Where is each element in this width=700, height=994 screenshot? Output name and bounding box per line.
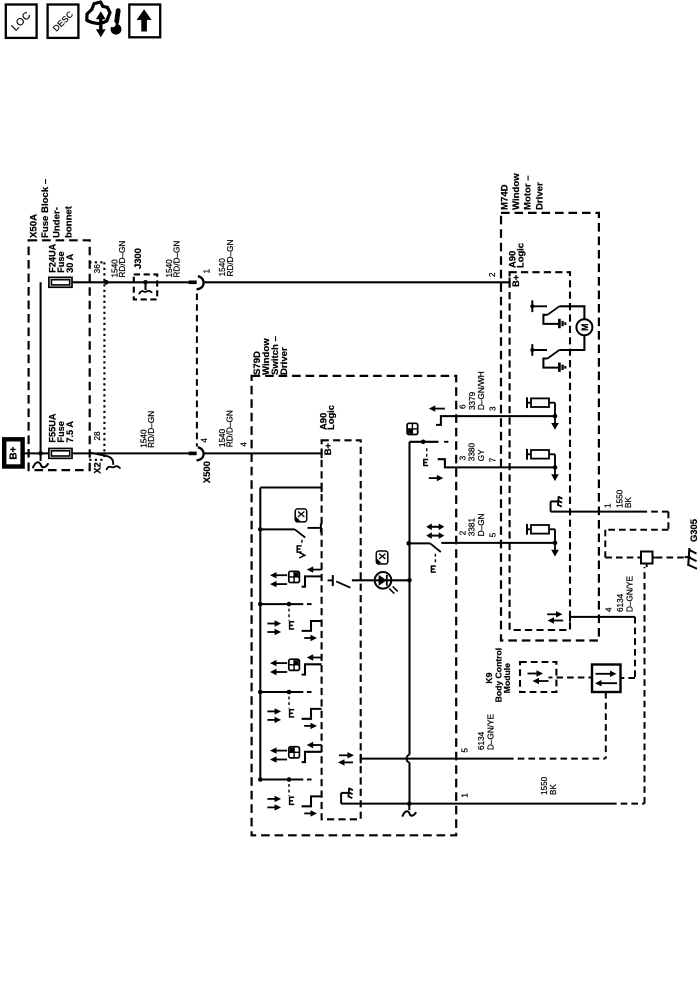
switch bus vertical (259, 488, 261, 780)
wire 1550 dashed route to G305 junction (605, 512, 668, 558)
label X50A Fuse Block - Under-bonnet (28, 178, 74, 238)
svg-text:bonnet: bonnet (63, 205, 74, 238)
connector X2 dotted pass-through (89, 262, 104, 460)
actuator symbol (289, 709, 291, 718)
pin 6 switch contact (436, 416, 456, 425)
icon LOC button (6, 5, 37, 38)
svg-text:BK: BK (549, 784, 558, 795)
B+ rail vertical in S79D (407, 442, 410, 804)
pin tick feed (321, 483, 323, 492)
lockout switch contact (258, 523, 321, 543)
svg-text:1: 1 (203, 269, 212, 274)
fuse F55UA 7.5 A (48, 413, 75, 458)
pin 3 switch contact (438, 459, 457, 467)
pull-up resistor (527, 449, 557, 470)
X2 pin 28 terminal clip (90, 453, 113, 465)
switch common node (410, 440, 449, 445)
svg-text:30 A: 30 A (65, 253, 75, 272)
pin 6 switch direction arrow (433, 408, 445, 410)
svg-text:Logic: Logic (325, 405, 336, 430)
pin 3 actuator linkage (426, 448, 428, 458)
svg-text:RD/D–GN: RD/D–GN (173, 241, 182, 278)
svg-text:LOC: LOC (10, 10, 34, 34)
pull-up resistor (527, 524, 557, 545)
svg-text:7: 7 (488, 457, 497, 462)
actuator arrows (267, 708, 281, 723)
direction arrow (304, 725, 312, 727)
junction LED to rail (407, 578, 412, 583)
serial data interface box (592, 665, 621, 693)
connector X500 pin 1 terminals (189, 276, 204, 289)
wire 3381 S79D pin2 to M74D pin5 (456, 542, 555, 544)
window switch unit (270, 572, 287, 587)
svg-text:Motor –: Motor – (523, 175, 534, 210)
pin 3 actuator symbol (423, 459, 425, 466)
bus continuation squiggle (40, 453, 42, 461)
svg-text:6134: 6134 (477, 731, 486, 750)
svg-text:3381: 3381 (468, 518, 477, 537)
svg-text:7.5 A: 7.5 A (65, 421, 75, 443)
svg-text:D–GN: D–GN (477, 513, 486, 536)
motor M (576, 319, 592, 335)
switch S79D dashed box (252, 376, 457, 835)
wire X500 pin 4 to S79D pin 4 (203, 452, 322, 454)
wire K9 to interface box (556, 677, 592, 679)
switch contact (302, 796, 322, 806)
splice J300 dashed box (134, 274, 157, 299)
S79D logic A90 dashed box (322, 440, 361, 819)
pin tick 6134 out of M74D logic (569, 612, 571, 622)
wire switch feed from logic (260, 486, 321, 488)
switch actuator linkage (288, 697, 290, 709)
svg-text:5: 5 (460, 748, 469, 753)
svg-text:Fuse Block –: Fuse Block – (40, 178, 51, 238)
svg-text:4: 4 (240, 442, 249, 447)
svg-text:4: 4 (200, 438, 209, 443)
svg-text:3380: 3380 (468, 443, 477, 462)
splice J300 tap (143, 280, 148, 285)
wire 1550 from M74D logic (551, 511, 641, 513)
svg-text:Window: Window (511, 173, 522, 210)
wire B+ to fuse F55UA (23, 452, 49, 454)
svg-text:B+: B+ (322, 442, 333, 455)
fuse block X50A dashed box (29, 240, 90, 470)
pin 2 actuator linkage (434, 554, 436, 565)
window icon (289, 659, 300, 670)
svg-text:J300: J300 (132, 248, 143, 269)
svg-text:X2: X2 (92, 462, 103, 473)
wire fuse F55UA through X2 pin 28 to X500 pin 4 (72, 452, 189, 454)
icon full-view up arrow button (129, 5, 160, 38)
relay output to motor bottom (559, 335, 584, 350)
pull-up resistor (527, 397, 557, 418)
icon DESC button (48, 5, 79, 38)
ground G305 symbol (685, 548, 697, 569)
logic input arrow (554, 543, 556, 552)
svg-text:D–GN/YE: D–GN/YE (626, 576, 635, 612)
svg-text:Driver: Driver (279, 347, 290, 375)
window switch unit (270, 660, 287, 675)
svg-text:Driver: Driver (534, 182, 545, 210)
svg-text:D–GN/WH: D–GN/WH (477, 371, 486, 410)
lockout switch icon (295, 509, 307, 522)
switch contact (302, 621, 322, 631)
svg-text:6134: 6134 (616, 593, 625, 612)
pin tick B+ into S79D logic (321, 449, 323, 459)
svg-text:GY: GY (477, 449, 486, 461)
svg-text:6: 6 (458, 404, 467, 409)
svg-text:28: 28 (93, 431, 102, 441)
wire interface box to 6134 run (605, 692, 607, 759)
pin 3 direction arrow (429, 477, 439, 479)
battery feed B+ terminal (4, 439, 22, 466)
ground wire squiggle (408, 804, 410, 811)
indicator LED (375, 572, 398, 594)
wire 1550 dashed to ground route (610, 803, 645, 805)
M74D logic ground (550, 501, 552, 511)
actuator symbol (289, 621, 291, 630)
direction arrow (304, 637, 312, 639)
svg-text:Logic: Logic (514, 243, 525, 268)
svg-text:B+: B+ (510, 274, 521, 287)
X2 pin 36 terminal junction (104, 280, 109, 285)
switch contact (302, 566, 322, 586)
svg-text:2: 2 (488, 272, 497, 277)
wire fuse F24UA to X500 pin 1 (72, 281, 189, 283)
junction rail to ground wire (407, 801, 412, 806)
relay contact (530, 344, 559, 368)
svg-text:RD/D–GN: RD/D–GN (226, 239, 235, 276)
switch contact (302, 709, 322, 719)
svg-text:2: 2 (458, 530, 467, 535)
pin 2 switch contact (407, 541, 457, 552)
pin 2 double arrows (426, 524, 444, 539)
junction pin2 rail (407, 541, 412, 546)
svg-text:X50A: X50A (28, 214, 39, 238)
wire S79D ground to pin 1 (341, 803, 610, 805)
module K9 dashed box (520, 662, 556, 692)
X500 connector extent dashed (196, 294, 198, 447)
wire 6134 dashed route to BCM (621, 617, 636, 678)
M74D logic double arrow to pin 4 (547, 611, 563, 624)
svg-text:Under-: Under- (52, 207, 63, 238)
pin tick 6134 out of logic (360, 754, 362, 764)
svg-text:3: 3 (488, 406, 497, 411)
motor M74D dashed box (501, 213, 599, 641)
svg-text:1: 1 (460, 793, 469, 798)
switch contact (302, 742, 322, 762)
wire to G305 (656, 557, 685, 559)
wire S79D pin 5 6134 (361, 758, 507, 760)
svg-text:3379: 3379 (468, 391, 477, 410)
svg-text:D–GN/YE: D–GN/YE (486, 714, 495, 750)
svg-text:G305: G305 (688, 519, 699, 542)
switch contact (302, 654, 322, 674)
actuator symbol (289, 797, 291, 806)
svg-text:5: 5 (488, 532, 497, 537)
relay output to motor top (559, 306, 584, 319)
lockout actuator symbol (297, 545, 305, 558)
svg-text:1: 1 (603, 503, 612, 508)
svg-text:36: 36 (93, 264, 102, 274)
svg-text:B+: B+ (9, 446, 20, 459)
svg-text:RD/D–GN: RD/D–GN (147, 411, 156, 448)
svg-text:BK: BK (624, 497, 633, 508)
actuator arrows (267, 620, 281, 635)
switch common bus branch (258, 690, 312, 695)
svg-text:3: 3 (458, 455, 467, 460)
S79D logic ground (340, 793, 342, 804)
fuse block internal bus vertical (40, 282, 42, 453)
svg-text:M74D: M74D (499, 184, 510, 210)
svg-text:Module: Module (502, 663, 512, 693)
wire 3380 S79D pin3 to M74D pin7 (456, 466, 555, 468)
icon vehicle with double arrow and wrench (87, 2, 122, 37)
window icon at pin 6 switch (407, 423, 418, 434)
svg-text:RD/D–GN: RD/D–GN (226, 410, 235, 447)
logic input arrow (554, 467, 556, 476)
wire X500 pin 1 to M74D pin 2 (203, 281, 510, 283)
window icon (289, 571, 300, 582)
actuator arrows (267, 796, 281, 811)
connector X500 pin 4 terminals (189, 447, 204, 460)
window switch unit (270, 747, 287, 762)
switch common bus branch (258, 602, 312, 607)
window icon (289, 747, 300, 758)
svg-text:X500: X500 (201, 461, 212, 483)
svg-text:RD/D–GN: RD/D–GN (118, 241, 127, 278)
ground junction box (641, 552, 656, 568)
svg-text:DESC: DESC (51, 9, 76, 34)
S79D logic double arrow to pin 5 (338, 752, 354, 766)
pin tick B+ into M74D logic (509, 278, 511, 288)
switch actuator linkage (288, 609, 290, 621)
svg-text:4: 4 (604, 607, 613, 612)
LED lockout icon (376, 551, 388, 564)
switch actuator linkage (288, 784, 290, 796)
M74D logic A90 dashed box (510, 272, 570, 630)
relay ground bars (559, 319, 565, 328)
wire LED feed (352, 579, 410, 581)
fuse F24UA 30 A (48, 243, 75, 287)
K9 double arrow (528, 670, 553, 684)
LED switch contact (328, 575, 351, 588)
junction at B+ bus (38, 451, 43, 456)
relay contact (530, 300, 559, 324)
wire 6134 from M74D pin 4 (570, 616, 635, 618)
svg-text:M: M (580, 324, 590, 332)
relay ground bars (559, 363, 565, 372)
direction arrow (304, 812, 312, 814)
logic input arrow (554, 416, 556, 425)
wire 3379 S79D pin6 to M74D pin3 (456, 415, 555, 417)
switch common bus branch (258, 777, 312, 782)
pin 2 actuator symbol (430, 565, 432, 572)
